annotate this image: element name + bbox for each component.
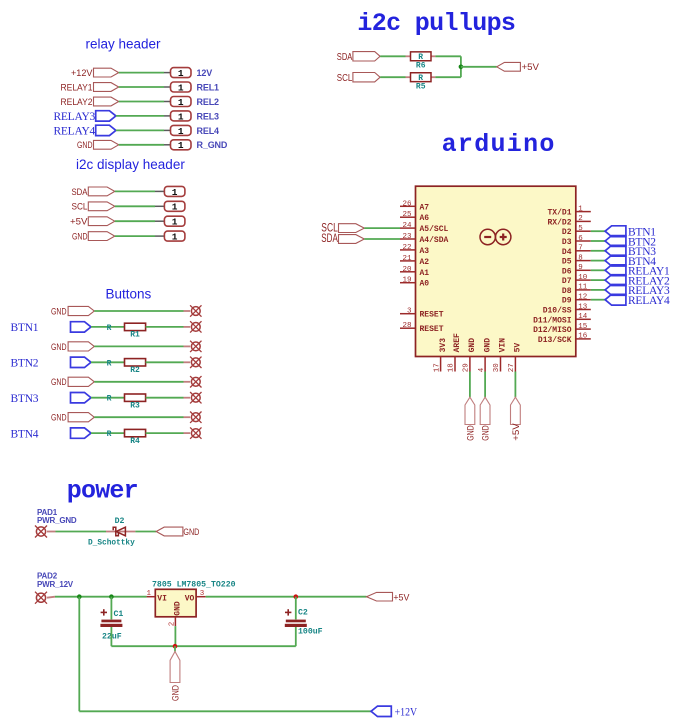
- pin 4 (GND): [478, 338, 493, 373]
- wire: [110, 597, 112, 620]
- svg-text:14: 14: [578, 313, 588, 321]
- svg-text:1: 1: [178, 68, 184, 79]
- pin 24 (A5/SCL): [400, 222, 449, 234]
- pin 3 (RESET): [400, 308, 444, 320]
- svg-text:GND: GND: [51, 342, 67, 353]
- pin 5 (D2): [562, 225, 591, 237]
- pin 26 (A7): [400, 200, 429, 212]
- connector pin 1: [155, 201, 185, 212]
- connector pin 1: [155, 216, 185, 227]
- svg-text:GND: GND: [183, 527, 199, 538]
- wire: [591, 289, 605, 291]
- svg-text:A2: A2: [420, 258, 430, 267]
- svg-text:15: 15: [578, 323, 588, 331]
- global label RELAY3: [53, 111, 115, 123]
- pin 10 (D7): [562, 274, 591, 286]
- pin 30 (VIN): [493, 338, 508, 373]
- svg-text:A5/SCL: A5/SCL: [420, 225, 449, 234]
- hierarchical label GND: [51, 342, 94, 353]
- svg-text:1: 1: [178, 126, 184, 137]
- arduino module body: [416, 186, 576, 356]
- connector pin 1 (REL2): [164, 97, 191, 108]
- wire: [460, 56, 462, 77]
- capacitor C1 (22uF): [100, 609, 123, 641]
- svg-text:10: 10: [578, 274, 588, 282]
- svg-text:R: R: [107, 430, 112, 439]
- global label BTN2: [11, 357, 92, 369]
- svg-text:RELAY4: RELAY4: [628, 295, 670, 307]
- svg-text:RELAY2: RELAY2: [61, 97, 93, 108]
- svg-text:VIN: VIN: [499, 338, 508, 353]
- svg-text:D9: D9: [562, 297, 572, 306]
- power label GND: [465, 397, 476, 441]
- svg-text:D6: D6: [562, 267, 572, 276]
- connector pin 1 (REL3): [164, 111, 191, 122]
- svg-text:REL4: REL4: [197, 126, 220, 136]
- svg-text:3V3: 3V3: [439, 338, 448, 353]
- global label RELAY1: [605, 265, 670, 278]
- svg-text:D5: D5: [562, 258, 572, 267]
- svg-text:1: 1: [178, 140, 184, 151]
- wire: [484, 372, 486, 398]
- svg-text:5V: 5V: [514, 343, 523, 353]
- global label BTN3: [11, 393, 92, 405]
- svg-text:D2: D2: [115, 517, 125, 526]
- svg-text:D11/MOSI: D11/MOSI: [533, 316, 572, 325]
- pad PAD1 (PWR_GND): [35, 508, 77, 537]
- svg-text:11: 11: [578, 284, 588, 292]
- wire: [56, 531, 107, 533]
- svg-text:R: R: [107, 359, 112, 368]
- pad: [184, 305, 202, 316]
- svg-text:3: 3: [200, 590, 205, 598]
- svg-text:GND: GND: [174, 601, 183, 616]
- power label +5V: [497, 62, 540, 73]
- wire: [119, 72, 164, 74]
- wire: [91, 432, 125, 434]
- wire: [94, 345, 183, 347]
- wire: [146, 326, 184, 328]
- svg-text:2: 2: [168, 622, 176, 627]
- svg-text:D7: D7: [562, 277, 572, 286]
- svg-text:28: 28: [402, 322, 411, 330]
- wire: [119, 86, 164, 88]
- pin label 12V: [197, 68, 213, 78]
- svg-text:RESET: RESET: [420, 311, 444, 320]
- svg-text:power: power: [67, 477, 138, 506]
- svg-text:7805 LM7805_TO220: 7805 LM7805_TO220: [152, 581, 236, 590]
- wire: [135, 531, 156, 533]
- svg-text:+5V: +5V: [70, 217, 88, 228]
- svg-text:BTN2: BTN2: [11, 358, 39, 370]
- svg-text:REL3: REL3: [197, 111, 220, 121]
- resistor R5: [406, 73, 436, 92]
- wire: [591, 269, 605, 271]
- svg-text:12: 12: [578, 294, 587, 302]
- svg-text:PWR_12V: PWR_12V: [37, 580, 74, 589]
- wire (ground rail): [111, 645, 295, 647]
- svg-text:D13/SCK: D13/SCK: [538, 336, 572, 345]
- svg-text:SDA: SDA: [321, 233, 338, 245]
- pin 16 (D13/SCK): [538, 333, 591, 345]
- hierarchical label RELAY2: [61, 97, 119, 108]
- global label BTN2: [605, 236, 656, 249]
- svg-text:17: 17: [433, 363, 441, 372]
- wire: [91, 326, 125, 328]
- svg-text:relay header: relay header: [86, 37, 162, 52]
- svg-text:R: R: [107, 395, 112, 404]
- svg-text:13: 13: [578, 303, 588, 311]
- svg-text:GND: GND: [170, 685, 181, 701]
- svg-text:20: 20: [402, 266, 412, 274]
- svg-text:BTN4: BTN4: [11, 428, 39, 440]
- section title: Buttons: [106, 286, 152, 301]
- svg-text:D_Schottky: D_Schottky: [88, 539, 135, 547]
- hierarchical label +5V: [70, 217, 115, 228]
- pin 8 (D5): [562, 254, 591, 266]
- pin 23 (A4/SDA): [400, 233, 449, 245]
- svg-text:12V: 12V: [197, 68, 213, 78]
- svg-text:REL1: REL1: [197, 82, 220, 92]
- global label BTN1: [11, 322, 92, 334]
- pin label REL1: [197, 82, 220, 92]
- svg-text:5: 5: [578, 225, 583, 233]
- pin 19 (A0): [400, 277, 429, 289]
- svg-text:24: 24: [402, 222, 412, 230]
- pin 15 (D12/MISO): [533, 323, 591, 335]
- svg-text:GND: GND: [481, 425, 492, 441]
- svg-text:RESET: RESET: [420, 325, 444, 334]
- svg-text:1: 1: [178, 111, 184, 122]
- pad: [184, 321, 202, 332]
- global label BTN4: [605, 255, 656, 268]
- wire: [295, 597, 297, 620]
- svg-text:A7: A7: [420, 203, 430, 212]
- svg-text:RELAY1: RELAY1: [61, 82, 93, 93]
- diode D2 (D_Schottky): [88, 517, 135, 548]
- pad: [184, 412, 202, 423]
- pad: [184, 376, 202, 387]
- svg-text:1: 1: [172, 217, 178, 228]
- svg-text:D12/MISO: D12/MISO: [533, 326, 572, 335]
- pin 18 (AREF): [448, 333, 463, 372]
- wire: [461, 66, 497, 68]
- svg-text:RELAY4: RELAY4: [53, 126, 95, 138]
- svg-text:+5V: +5V: [522, 62, 540, 73]
- wire: [91, 397, 125, 399]
- wire: [591, 299, 605, 301]
- svg-text:VI: VI: [157, 594, 167, 603]
- svg-text:GND: GND: [51, 306, 67, 317]
- svg-text:SDA: SDA: [337, 52, 353, 63]
- svg-text:GND: GND: [51, 413, 67, 424]
- junction: [173, 644, 178, 649]
- pin 1 (TX/D1): [547, 205, 590, 217]
- wire: [116, 115, 164, 117]
- svg-text:A3: A3: [420, 247, 430, 256]
- svg-text:R1: R1: [130, 331, 140, 340]
- svg-text:1: 1: [147, 590, 152, 598]
- resistor R6: [406, 52, 436, 71]
- svg-text:29: 29: [463, 363, 471, 372]
- wire: [591, 240, 605, 242]
- global label BTN4: [11, 428, 92, 440]
- hierarchical label GND: [156, 527, 199, 538]
- svg-text:RELAY3: RELAY3: [53, 111, 95, 123]
- svg-text:23: 23: [402, 233, 412, 241]
- svg-text:C2: C2: [298, 608, 308, 617]
- svg-text:AREF: AREF: [453, 333, 462, 352]
- wire: [364, 227, 400, 229]
- pin 9 (D6): [562, 264, 591, 276]
- svg-text:GND: GND: [72, 232, 88, 243]
- pin 21 (A2): [400, 255, 429, 267]
- svg-text:D4: D4: [562, 248, 572, 257]
- connector pin 1 (R_GND): [164, 140, 191, 151]
- global label RELAY4: [605, 294, 670, 307]
- svg-text:GND: GND: [51, 377, 67, 388]
- wire: [146, 432, 184, 434]
- pad: [184, 427, 202, 438]
- svg-text:A4/SDA: A4/SDA: [420, 236, 449, 245]
- hierarchical label GND: [51, 413, 94, 424]
- svg-text:2: 2: [578, 215, 583, 223]
- wire: [435, 76, 461, 78]
- power label +5V: [367, 592, 411, 603]
- wire: [91, 361, 125, 363]
- hierarchical label SCL: [72, 202, 115, 213]
- svg-text:1: 1: [178, 82, 184, 93]
- svg-text:i2c display header: i2c display header: [76, 157, 185, 172]
- wire: [514, 372, 516, 398]
- connector pin 1: [155, 231, 185, 242]
- wire: [146, 361, 184, 363]
- resistor R3: [107, 394, 146, 411]
- wire: [78, 597, 80, 712]
- pin 22 (A3): [400, 244, 429, 256]
- wire: [380, 55, 405, 57]
- wire (5V rail): [206, 596, 367, 598]
- pin label R_GND: [197, 140, 228, 150]
- resistor R2: [107, 359, 146, 376]
- svg-text:GND: GND: [483, 338, 492, 353]
- wire: [94, 416, 183, 418]
- pin 17 (3V3): [433, 338, 448, 373]
- svg-text:21: 21: [402, 255, 412, 263]
- connector pin 1 (REL1): [164, 82, 191, 93]
- svg-text:R2: R2: [130, 366, 140, 375]
- pin 12 (D9): [562, 294, 591, 306]
- svg-text:7: 7: [578, 245, 583, 253]
- hierarchical label GND: [51, 306, 94, 317]
- svg-text:1: 1: [578, 205, 583, 213]
- junction: [77, 594, 82, 599]
- regulator 7805 LM7805_TO220: [147, 581, 236, 627]
- pin label REL4: [197, 126, 220, 136]
- junction: [109, 594, 114, 599]
- svg-text:A0: A0: [420, 280, 430, 289]
- svg-text:27: 27: [508, 363, 516, 372]
- svg-text:BTN1: BTN1: [11, 322, 39, 334]
- wire: [591, 260, 605, 262]
- wire: [115, 235, 155, 237]
- wire: [435, 55, 461, 57]
- global label BTN3: [605, 245, 656, 258]
- svg-text:R3: R3: [130, 402, 140, 411]
- connector pin 1: [155, 186, 185, 197]
- hierarchical label GND: [51, 377, 94, 388]
- svg-text:A1: A1: [420, 269, 430, 278]
- wire: [115, 220, 155, 222]
- wire: [116, 129, 164, 131]
- connector pin 1 (12V): [164, 68, 191, 79]
- hierarchical label SCL: [337, 73, 380, 84]
- junction: [459, 65, 464, 70]
- pad PAD2 (PWR_12V): [35, 572, 74, 604]
- wire: [115, 205, 155, 207]
- pin 27 (5V): [508, 343, 523, 373]
- hierarchical label RELAY1: [61, 82, 119, 93]
- svg-text:REL2: REL2: [197, 97, 220, 107]
- section title: power: [67, 477, 138, 506]
- svg-text:+5V: +5V: [393, 592, 410, 603]
- svg-text:R5: R5: [416, 82, 426, 91]
- svg-text:GND: GND: [468, 338, 477, 353]
- pin 13 (D10/SS): [543, 303, 591, 315]
- wire: [146, 397, 184, 399]
- svg-text:GND: GND: [77, 140, 93, 151]
- svg-text:1: 1: [172, 187, 178, 198]
- svg-text:VO: VO: [185, 594, 195, 603]
- svg-text:D3: D3: [562, 238, 572, 247]
- svg-text:+5V: +5V: [511, 423, 522, 441]
- wire: [119, 101, 164, 103]
- svg-text:100uF: 100uF: [298, 627, 323, 636]
- svg-text:TX/D1: TX/D1: [547, 209, 571, 218]
- hierarchical label +12V: [71, 68, 119, 79]
- svg-text:19: 19: [402, 277, 411, 285]
- junction: [294, 594, 299, 599]
- pin 20 (A1): [400, 266, 429, 278]
- wire: [115, 190, 155, 192]
- battery symbol minus: [480, 229, 495, 244]
- svg-text:R_GND: R_GND: [197, 140, 228, 150]
- wire: [295, 627, 297, 646]
- pin label REL2: [197, 97, 220, 107]
- capacitor C2 (100uF): [285, 608, 323, 636]
- svg-text:i2c pullups: i2c pullups: [357, 9, 515, 38]
- svg-text:R6: R6: [416, 62, 426, 71]
- wire: [110, 627, 112, 646]
- power label GND: [170, 646, 181, 701]
- svg-text:+12V: +12V: [395, 706, 418, 718]
- global label +12V: [371, 706, 418, 718]
- svg-text:16: 16: [578, 333, 588, 341]
- pin 28 (RESET): [400, 322, 444, 334]
- pin 7 (D4): [562, 245, 591, 257]
- connector pin 1 (REL4): [164, 125, 191, 136]
- svg-text:Buttons: Buttons: [106, 286, 152, 301]
- wire: [174, 626, 176, 646]
- power label GND: [480, 397, 491, 441]
- wire: [94, 310, 183, 312]
- svg-text:D2: D2: [562, 228, 572, 237]
- wire: [119, 144, 164, 146]
- global label RELAY4: [53, 125, 115, 137]
- wire: [591, 279, 605, 281]
- global label RELAY3: [605, 285, 670, 298]
- global label RELAY2: [605, 275, 670, 288]
- hierarchical label SDA: [337, 52, 380, 63]
- svg-text:SCL: SCL: [72, 202, 88, 213]
- svg-text:R4: R4: [130, 437, 140, 446]
- svg-text:BTN3: BTN3: [11, 393, 39, 405]
- svg-text:25: 25: [402, 211, 412, 219]
- section title: i2c pullups: [357, 9, 515, 38]
- svg-text:1: 1: [172, 202, 178, 213]
- wire: [469, 372, 471, 398]
- wire: [79, 710, 371, 712]
- svg-text:3: 3: [407, 308, 412, 316]
- svg-text:C1: C1: [114, 610, 124, 619]
- svg-text:arduino: arduino: [442, 130, 556, 159]
- wire: [591, 230, 605, 232]
- hierarchical label GND: [72, 232, 115, 243]
- resistor R1: [107, 323, 146, 340]
- pin 25 (A6): [400, 211, 429, 223]
- svg-text:18: 18: [448, 363, 456, 372]
- power label +5V: [511, 397, 522, 441]
- pin 29 (GND): [463, 338, 478, 373]
- svg-text:R: R: [107, 324, 112, 333]
- pin 11 (D8): [562, 284, 591, 296]
- wire (12V rail): [55, 596, 147, 598]
- section title: relay header: [86, 37, 162, 52]
- global label BTN1: [605, 226, 656, 239]
- svg-text:9: 9: [578, 264, 583, 272]
- wire: [380, 76, 405, 78]
- resistor R4: [107, 429, 146, 446]
- svg-text:GND: GND: [465, 425, 476, 441]
- wire: [94, 381, 183, 383]
- pin label REL3: [197, 111, 220, 121]
- svg-text:30: 30: [493, 363, 501, 373]
- svg-text:6: 6: [578, 235, 583, 243]
- svg-text:1: 1: [178, 97, 184, 108]
- wire: [591, 250, 605, 252]
- pin 2 (RX/D2): [547, 215, 590, 227]
- svg-text:1: 1: [172, 232, 178, 243]
- svg-text:A6: A6: [420, 214, 430, 223]
- hierarchical label GND: [77, 140, 119, 151]
- section title: arduino: [442, 130, 556, 159]
- pin 14 (D11/MOSI): [533, 313, 591, 325]
- svg-text:SDA: SDA: [72, 187, 89, 198]
- battery symbol plus: [496, 229, 511, 244]
- hierarchical label SDA: [72, 187, 115, 198]
- hierarchical label SDA: [321, 233, 364, 245]
- svg-text:D10/SS: D10/SS: [543, 307, 572, 316]
- svg-text:8: 8: [578, 254, 583, 262]
- pin 6 (D3): [562, 235, 591, 247]
- svg-text:D8: D8: [562, 287, 572, 296]
- svg-text:22: 22: [402, 244, 411, 252]
- pad: [184, 392, 202, 403]
- hierarchical label SCL: [321, 222, 364, 234]
- svg-text:26: 26: [402, 200, 412, 208]
- svg-text:PWR_GND: PWR_GND: [37, 516, 77, 525]
- svg-text:RX/D2: RX/D2: [547, 218, 571, 227]
